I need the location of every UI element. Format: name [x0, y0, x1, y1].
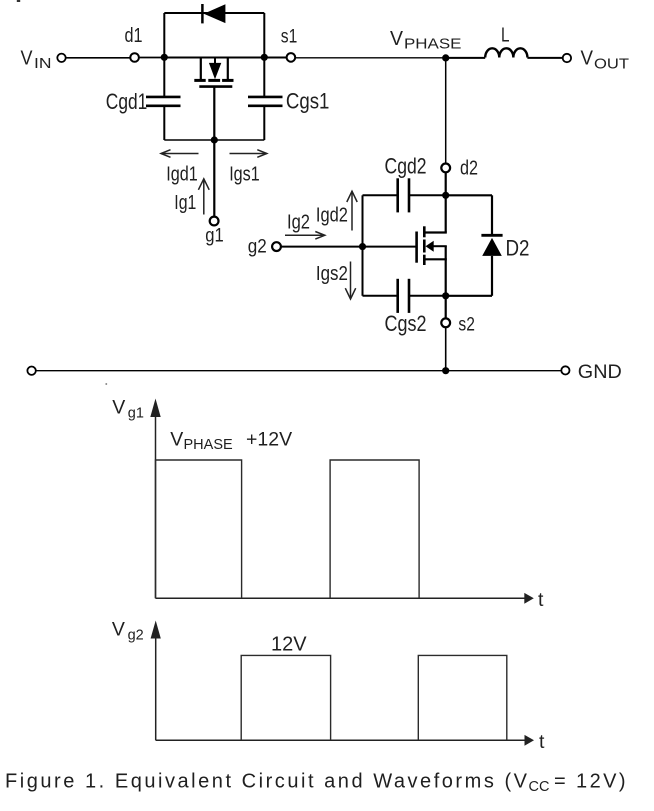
wire GND rail — [36, 370, 561, 372]
terminal g2 — [272, 242, 281, 251]
Vg1 waveform pulse 1 — [156, 460, 242, 598]
caption Figure 1 — [5, 771, 626, 796]
label Vg1 axis — [112, 397, 144, 422]
svg-text:PHASE: PHASE — [184, 437, 233, 453]
wire VPHASE to inductor — [446, 57, 486, 59]
inductor L — [485, 48, 527, 57]
wire drain node down to Q2 drain — [445, 195, 447, 232]
wire D1 loop top — [164, 12, 264, 14]
wire d2 to drain node — [445, 173, 447, 196]
svg-text:d1: d1 — [125, 25, 143, 47]
svg-text:t: t — [539, 731, 545, 753]
svg-text:12V: 12V — [271, 633, 307, 655]
wire source node down to s2 — [445, 296, 447, 319]
svg-text:GND: GND — [578, 361, 622, 383]
wire Q2 source down to source node — [445, 259, 447, 296]
current arrow Igd2 (up) — [347, 191, 357, 230]
svg-text:OUT: OUT — [594, 55, 629, 72]
svg-text:Figure 1. Equivalent Circuit a: Figure 1. Equivalent Circuit and Wavefor… — [5, 771, 528, 793]
svg-text:V: V — [21, 47, 34, 69]
terminal VOUT — [563, 54, 571, 62]
svg-text:g1: g1 — [205, 226, 224, 247]
svg-text:IN: IN — [34, 56, 52, 72]
Vg2 y-axis — [151, 621, 161, 741]
svg-text:Igs1: Igs1 — [229, 164, 260, 186]
label VOUT — [581, 48, 630, 73]
transistor Q1 (high-side N-MOSFET, gate down) — [194, 58, 233, 87]
terminal s1 — [287, 53, 296, 62]
svg-text:Igd2: Igd2 — [316, 204, 348, 226]
svg-text:PHASE: PHASE — [404, 36, 462, 53]
stray mark top corner — [17, 0, 20, 2]
current arrow Igd1 (left) — [161, 150, 199, 158]
svg-text:V: V — [112, 397, 125, 419]
diode D2 (body diode of Q2, cathode up) — [481, 195, 502, 295]
wire node B to s1 — [264, 57, 286, 59]
terminal g1 — [210, 217, 219, 226]
node source junction dot — [442, 292, 449, 299]
svg-text:s1: s1 — [281, 27, 298, 48]
terminal d1 — [130, 53, 139, 62]
value label VPHASE +12V — [170, 428, 292, 453]
svg-text:CC: CC — [529, 779, 550, 795]
transistor Q2 (low-side N-MOSFET, gate left) — [417, 226, 447, 265]
diode D1 (body diode of Q1, cathode left) — [202, 4, 225, 23]
terminal VIN — [57, 54, 65, 62]
wire g2 to Q2 gate — [281, 246, 415, 248]
node drain junction dot — [442, 192, 449, 199]
Vg1 waveform pulse 2 — [330, 460, 419, 598]
svg-text:s2: s2 — [458, 315, 475, 336]
terminal GND left — [27, 367, 35, 375]
node GND junction dot — [442, 367, 449, 374]
svg-text:+12V: +12V — [246, 428, 292, 450]
stray dot — [106, 383, 108, 385]
wire source node to diode D2 bottom — [446, 295, 492, 297]
svg-text:Ig2: Ig2 — [287, 211, 310, 233]
svg-text:D2: D2 — [506, 236, 530, 261]
svg-text:V: V — [390, 28, 404, 50]
capacitor Cgs1 — [248, 58, 283, 141]
svg-text:V: V — [170, 428, 183, 450]
current arrow Igs2 (down) — [345, 262, 355, 300]
wire d1 to node A — [139, 57, 164, 59]
current arrow Ig2 (right) — [285, 232, 325, 240]
svg-text:V: V — [581, 48, 594, 70]
node g1 junction dot — [211, 136, 218, 143]
svg-text:= 12V): = 12V) — [554, 771, 626, 793]
wire s1 to VPHASE node — [296, 57, 446, 59]
wire D1 loop right vertical — [263, 13, 265, 58]
capacitor Cgd2 — [363, 178, 446, 212]
terminal s2 — [441, 318, 450, 327]
svg-text:L: L — [501, 25, 510, 47]
svg-text:t: t — [538, 589, 544, 611]
node A junction dot — [161, 54, 168, 61]
current arrow Igs1 (right) — [230, 150, 267, 158]
node B junction dot — [261, 54, 268, 61]
wire D1 loop left vertical — [163, 13, 165, 58]
terminal GND right — [561, 366, 569, 374]
svg-text:Igd1: Igd1 — [166, 164, 198, 186]
wire left branch vertical (gate loop) — [362, 195, 364, 295]
svg-text:Cgd2: Cgd2 — [385, 154, 427, 179]
svg-text:Igs2: Igs2 — [316, 263, 348, 285]
wire inductor to VOUT — [527, 57, 562, 59]
svg-text:g1: g1 — [128, 406, 144, 422]
wire s2 down to GND rail — [445, 327, 447, 371]
Vg2 waveform pulse 2 — [418, 655, 507, 740]
svg-text:d2: d2 — [460, 157, 478, 179]
wire node A to node B (drain-source rail under Q1) — [164, 57, 264, 59]
svg-text:g2: g2 — [128, 628, 144, 644]
svg-text:g2: g2 — [248, 237, 267, 258]
svg-text:V: V — [112, 619, 125, 641]
Vg2 waveform pulse 1 — [241, 655, 330, 740]
wire gate bus (Cgd1 bottom to Cgs1 bottom) — [164, 139, 264, 141]
capacitor Cgs2 — [363, 279, 446, 313]
capacitor Cgd1 — [146, 58, 181, 141]
Vg1 x-axis — [156, 593, 534, 604]
wire VPHASE node down to d2 — [445, 58, 447, 163]
label VIN — [21, 47, 52, 72]
svg-text:Cgd1: Cgd1 — [106, 89, 148, 114]
wire drain node to diode D2 top — [446, 194, 492, 196]
Vg2 x-axis — [156, 735, 534, 746]
svg-text:Cgs1: Cgs1 — [286, 89, 330, 114]
wire gate node to g1 terminal — [213, 140, 215, 217]
terminal d2 — [441, 164, 450, 173]
Vg1 y-axis — [150, 399, 160, 599]
svg-text:Cgs2: Cgs2 — [385, 311, 427, 336]
node VPHASE junction dot — [442, 54, 449, 61]
label Vg2 axis — [112, 619, 144, 644]
current arrow Ig1 (up) — [198, 179, 209, 215]
label VPHASE — [390, 28, 462, 53]
wire Q1 gate down to gate node — [213, 87, 215, 140]
wire VIN to d1 — [66, 57, 130, 59]
node g2 junction dot — [359, 243, 366, 250]
svg-text:Ig1: Ig1 — [174, 192, 196, 214]
